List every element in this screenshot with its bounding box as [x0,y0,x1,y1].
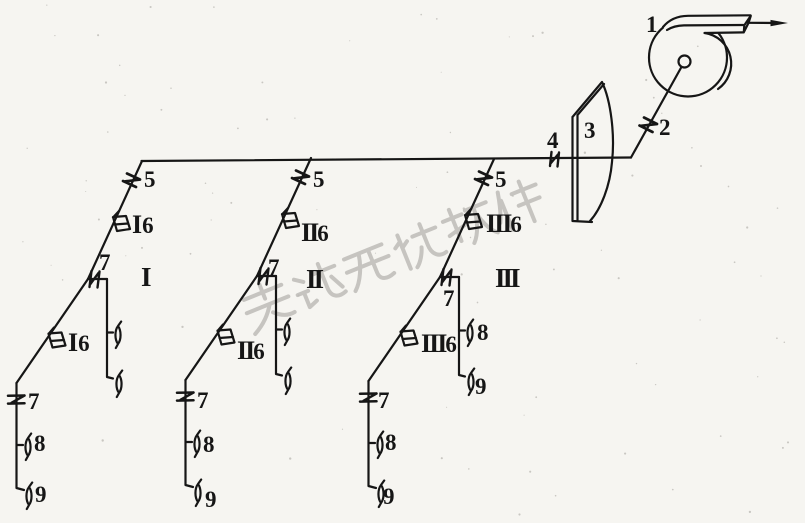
nozzle 8 [194,431,200,458]
svg-text:8: 8 [203,432,215,457]
nozzle 9 [195,480,201,507]
branch III [360,159,494,507]
tick 5 [475,172,492,186]
sub riser [276,276,282,376]
svg-text:9: 9 [205,487,217,512]
tick 7 bottom [177,393,194,401]
watermark [238,174,548,334]
hood box 6b [49,328,66,348]
nozzle a [115,322,121,349]
svg-text:5: 5 [495,167,507,192]
svg-text:II6: II6 [237,336,264,365]
wire upper diagonal [257,158,311,276]
outlet arrow [749,22,780,24]
svg-text:7: 7 [28,389,40,414]
separator plate 3 [573,82,613,222]
fan hub [679,56,691,68]
junction tick [259,268,269,285]
junction stub [440,276,459,278]
svg-text:II6: II6 [301,218,328,247]
nozzle b [285,368,291,395]
nozzle 8 [377,432,383,459]
fan shaft line [705,33,731,89]
nozzle a [284,319,290,346]
hood box 6b [218,325,235,345]
nozzle b [116,371,122,398]
wire bottom drop [186,380,194,487]
svg-text:II: II [306,264,324,294]
outlet occluder [663,15,751,33]
sub riser [459,277,465,377]
nozzle 8 stub [17,444,23,446]
branch II [177,158,311,506]
svg-text:7: 7 [197,388,209,413]
hood box 6a [282,208,299,228]
nozzle a [467,320,473,347]
tick 4 [550,152,559,167]
fan outlet duct [663,15,751,33]
svg-text:III: III [495,263,520,293]
junction tick [90,271,100,288]
hood box 6b [401,326,418,346]
sub riser [107,279,113,379]
hood box 6a [465,209,482,229]
wire bottom drop [369,381,377,488]
wire bottom drop [17,383,25,490]
svg-text:9: 9 [475,374,487,399]
tick 5 [292,171,309,185]
svg-text:9: 9 [383,484,395,509]
tick 7 bottom [8,396,25,404]
svg-text:4: 4 [547,128,559,153]
wire lower diagonal [17,279,89,383]
svg-text:1: 1 [646,12,658,37]
main horizontal duct line [142,158,632,162]
fan outlet end cap [744,16,751,33]
svg-text:8: 8 [477,320,489,345]
svg-text:7: 7 [378,388,390,413]
fan 1 scroll [649,19,727,97]
hood box 6a [113,211,130,231]
tick 2 [640,118,658,133]
svg-text:III6: III6 [421,329,456,358]
wire lower diagonal [369,277,441,381]
svg-text:5: 5 [144,167,156,192]
svg-text:9: 9 [35,482,47,507]
svg-text:7: 7 [268,255,280,280]
nozzle 8 stub [369,442,375,444]
nozzle stub a [107,331,113,333]
junction stub [88,278,107,280]
tick 5 [123,174,140,188]
duct riser to fan [631,62,685,158]
nozzle 9 [378,481,384,508]
nozzle 8 [25,434,31,461]
nozzle 8 stub [186,441,192,443]
nozzle b [468,369,474,396]
svg-text:I6: I6 [68,328,90,357]
junction stub [257,275,276,277]
svg-text:I6: I6 [132,210,154,239]
svg-text:7: 7 [99,250,111,275]
svg-text:2: 2 [659,115,671,140]
wire upper diagonal [88,161,142,279]
svg-text:5: 5 [313,167,325,192]
wire upper diagonal [440,159,494,277]
junction tick [442,269,452,286]
nozzle stub a [276,328,282,330]
svg-text:8: 8 [34,431,46,456]
nozzle stub a [459,329,465,331]
svg-text:7: 7 [443,286,455,311]
wire lower diagonal [186,276,258,380]
branch I [8,161,142,509]
tick 7 bottom [360,394,377,402]
svg-text:3: 3 [584,118,596,143]
nozzle 9 [26,483,32,510]
svg-text:III6: III6 [486,209,521,238]
svg-text:I: I [141,262,151,292]
svg-text:8: 8 [385,430,397,455]
